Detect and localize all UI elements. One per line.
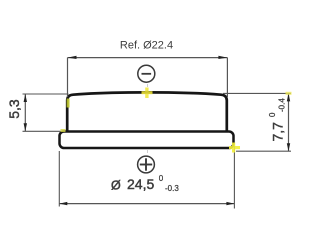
svg-text:Ø: Ø [111, 179, 121, 193]
dimension 5,3 lines and arrows (left) [23, 94, 69, 131]
dimension 5,3 label [6, 99, 22, 119]
yellow snap marker at right extension line end [286, 92, 292, 95]
dimension 7,7 0/-0.4 label [268, 98, 287, 142]
battery can flange (positive case) outline [60, 132, 234, 149]
svg-text:Ref. Ø22.4: Ref. Ø22.4 [120, 40, 173, 52]
dimension O24,5 lines and arrows (bottom) [59, 146, 234, 209]
yellow snap marker at lid top center [142, 88, 153, 99]
svg-text:5,3: 5,3 [6, 99, 22, 119]
dimension Ref. O22.4 label [120, 40, 173, 52]
svg-text:0: 0 [268, 112, 277, 117]
yellow snap marker at flange bottom-right corner [229, 143, 240, 153]
svg-text:7,7: 7,7 [270, 122, 286, 142]
yellow snap marker on lid left edge [67, 99, 70, 108]
dimension O24,5 0/-0.3 label [111, 174, 179, 193]
yellow snap marker at flange top-left corner [61, 129, 66, 132]
svg-text:-0.3: -0.3 [165, 184, 179, 193]
svg-text:-0.4: -0.4 [278, 98, 287, 112]
svg-text:24,5: 24,5 [127, 176, 154, 192]
plus terminal symbol [138, 156, 155, 173]
centerline [147, 84, 149, 156]
battery lid (negative cap) outline [67, 92, 227, 131]
dimension 7,7 lines and arrows (right) [223, 93, 291, 151]
minus terminal symbol [138, 65, 155, 82]
svg-text:0: 0 [159, 174, 164, 183]
dimension Ref. O22.4 lines and arrows [68, 56, 228, 97]
